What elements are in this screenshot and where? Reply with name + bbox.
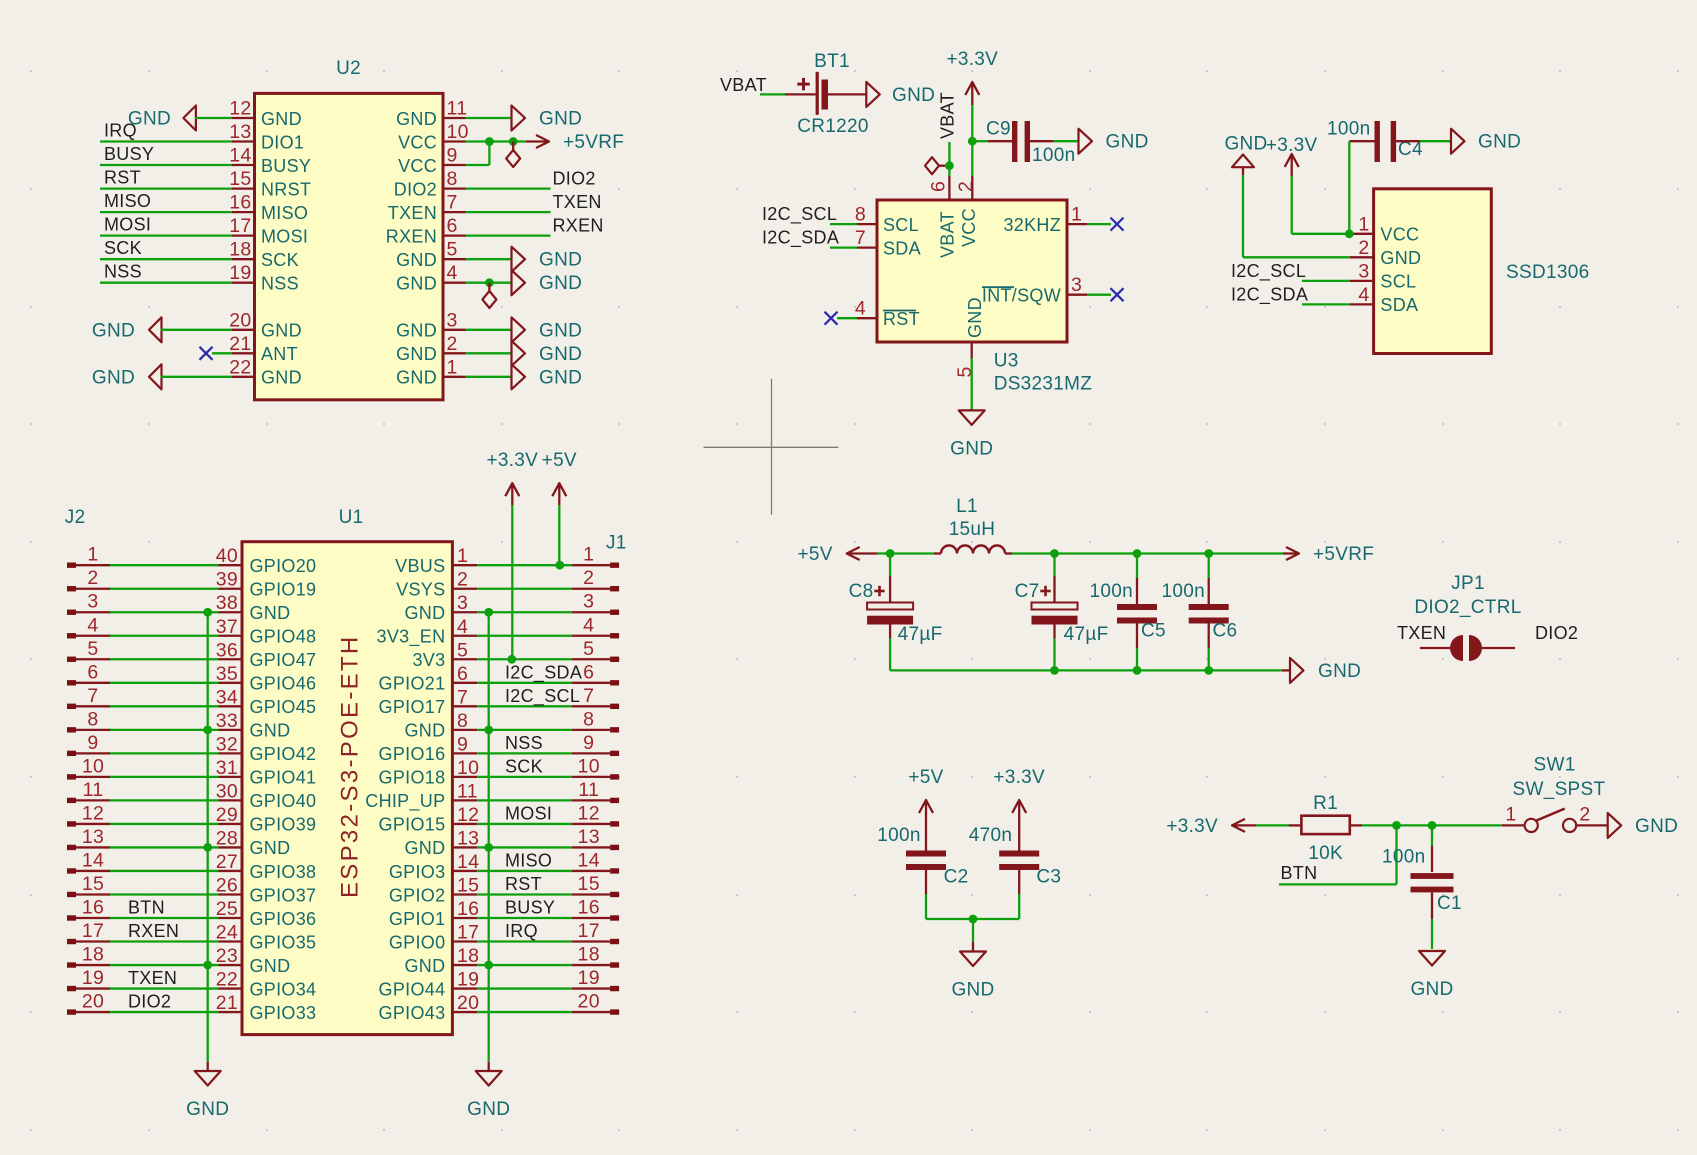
J2 pin 8	[67, 708, 110, 732]
svg-text:BUSY: BUSY	[261, 156, 311, 176]
wire U1 to J1-4	[477, 635, 572, 637]
svg-text:47µF: 47µF	[898, 624, 943, 645]
svg-text:DIO2_CTRL: DIO2_CTRL	[1414, 597, 1521, 618]
pin BT1 minus	[828, 93, 866, 95]
svg-text:10: 10	[82, 755, 104, 777]
J1 pin 4	[572, 614, 619, 638]
svg-text:C9: C9	[986, 119, 1011, 140]
wire U2 to TXEN	[466, 211, 551, 213]
SSD1306 pin 1 VCC	[1350, 213, 1419, 244]
J2 pin 4	[67, 614, 110, 638]
svg-text:GPIO33: GPIO33	[250, 1003, 317, 1023]
svg-text:GND: GND	[965, 297, 985, 338]
U3 pin 4 RST	[855, 298, 920, 329]
J1 pin 12	[572, 802, 619, 826]
wire I2C_SCL to U3	[830, 223, 857, 225]
svg-text:GPIO15: GPIO15	[379, 815, 446, 835]
junction left GND row3	[203, 608, 212, 617]
svg-text:6: 6	[457, 663, 468, 685]
J2 pin 10	[67, 755, 110, 779]
wire +5V to VBUS	[558, 505, 560, 565]
wire U2 pin20 to GND	[161, 329, 233, 331]
power flag PWR_FLAG2	[482, 291, 496, 308]
svg-text:JP1: JP1	[1451, 573, 1485, 594]
wire J2-3 to U1	[110, 611, 219, 613]
svg-text:GND: GND	[396, 344, 437, 364]
svg-text:10: 10	[578, 755, 600, 777]
wire pin4 flag stub	[488, 283, 490, 291]
power +5V at C2	[908, 767, 943, 823]
svg-text:1: 1	[1358, 213, 1369, 235]
svg-text:2: 2	[457, 569, 468, 591]
U2 pin 9 VCC	[398, 145, 465, 176]
svg-text:19: 19	[578, 967, 600, 989]
junction pin4 flag	[485, 278, 494, 287]
svg-text:MISO: MISO	[505, 850, 552, 870]
svg-text:1: 1	[447, 356, 458, 378]
capacitor C2	[906, 823, 946, 919]
J2 pin 20	[67, 991, 110, 1015]
wire U2 pin22 to GND	[161, 376, 233, 378]
svg-text:GND: GND	[467, 1099, 510, 1120]
svg-text:GPIO47: GPIO47	[250, 650, 317, 670]
svg-text:GPIO3: GPIO3	[389, 862, 446, 882]
svg-text:+3.3V: +3.3V	[1166, 816, 1218, 837]
wire U1 to J1-19	[477, 987, 572, 989]
svg-text:GND: GND	[404, 721, 445, 741]
wire U1 to J1-9	[477, 752, 572, 754]
svg-text:6: 6	[447, 215, 458, 237]
capacitor C6	[1189, 554, 1229, 671]
svg-text:2: 2	[583, 567, 594, 589]
junction right GND row3	[484, 608, 493, 617]
svg-text:SW1: SW1	[1534, 755, 1576, 776]
J2 pin 19	[67, 967, 110, 991]
no-connect U3 32KHZ	[1111, 218, 1124, 231]
U1 pin 18 GND	[404, 945, 479, 976]
svg-text:GPIO40: GPIO40	[250, 791, 317, 811]
svg-text:20: 20	[229, 309, 251, 331]
U1 pin 19 GPIO44	[379, 969, 480, 1000]
svg-text:GND: GND	[250, 956, 291, 976]
wire left GND bus	[207, 612, 209, 1062]
op-amp U2 body	[255, 93, 444, 399]
power flag VBAT	[925, 157, 939, 174]
wire INT/SQW stub	[1087, 294, 1111, 296]
svg-text:18: 18	[457, 945, 479, 967]
svg-text:GPIO36: GPIO36	[250, 909, 317, 929]
wire node down	[972, 919, 974, 942]
svg-text:GND: GND	[396, 250, 437, 270]
wire right GND bus	[488, 612, 490, 1062]
svg-text:GPIO17: GPIO17	[379, 697, 446, 717]
wire U1 to J1-5	[477, 658, 572, 660]
inductor L1	[934, 546, 1012, 554]
svg-text:13: 13	[457, 827, 479, 849]
power GND at SW1	[1608, 813, 1678, 838]
J2 pin 14	[67, 849, 110, 873]
svg-text:GPIO46: GPIO46	[250, 674, 317, 694]
svg-text:26: 26	[216, 874, 238, 896]
svg-text:BUSY: BUSY	[104, 144, 154, 164]
svg-text:9: 9	[87, 732, 98, 754]
power GND right of U1	[467, 1071, 510, 1120]
svg-text:DIO1: DIO1	[261, 132, 304, 152]
svg-text:6: 6	[928, 181, 950, 192]
wire J2-6 to U1	[110, 682, 219, 684]
svg-text:GPIO38: GPIO38	[250, 862, 317, 882]
svg-text:GND: GND	[261, 321, 302, 341]
svg-text:4: 4	[1358, 284, 1369, 306]
U1 pin 5 3V3	[412, 639, 477, 670]
junction 3V3	[507, 655, 516, 664]
resistor R1	[1289, 816, 1362, 834]
U1 pin 9 GPIO16	[379, 733, 478, 764]
svg-text:MISO: MISO	[104, 191, 151, 211]
svg-text:470n: 470n	[969, 825, 1012, 846]
wire +3.3V to 3V3	[511, 505, 513, 659]
capacitor C8	[867, 554, 913, 671]
svg-text:INT/SQW: INT/SQW	[982, 286, 1061, 306]
U2 pin 12 GND	[229, 98, 302, 129]
junction C7 top	[1050, 549, 1059, 558]
svg-text:NSS: NSS	[261, 274, 299, 294]
U2 pin 20 GND	[229, 309, 302, 340]
U1 pin 1 VBUS	[395, 545, 477, 576]
svg-text:GND: GND	[1106, 132, 1149, 153]
wire U1 to J1-1	[477, 564, 572, 566]
svg-text:GPIO43: GPIO43	[379, 1003, 446, 1023]
svg-text:8: 8	[457, 710, 468, 732]
J2 pin 1	[67, 544, 110, 568]
wire bottom rail to GND	[1209, 669, 1282, 671]
svg-text:I2C_SCL: I2C_SCL	[1231, 261, 1306, 282]
wire U1 to J1-3	[477, 611, 572, 613]
svg-text:9: 9	[447, 145, 458, 167]
wire to U2 pin9	[466, 164, 490, 166]
wire bottom rail C7-C5	[1055, 669, 1138, 671]
svg-text:19: 19	[229, 262, 251, 284]
junction C1	[1428, 821, 1437, 830]
svg-text:BT1: BT1	[814, 51, 850, 72]
svg-text:9: 9	[457, 733, 468, 755]
svg-text:24: 24	[216, 922, 238, 944]
power +3.3V at SSD1306	[1266, 135, 1318, 176]
svg-text:DIO2: DIO2	[553, 169, 596, 189]
junction left GND row18	[203, 961, 212, 970]
svg-text:25: 25	[216, 898, 238, 920]
svg-text:20: 20	[457, 992, 479, 1014]
wire NSS to U2	[100, 282, 232, 284]
J1 pin 2	[572, 567, 619, 591]
junction VBAT flag	[945, 161, 954, 170]
svg-text:8: 8	[583, 708, 594, 730]
svg-text:VBAT: VBAT	[938, 211, 958, 258]
svg-text:I2C_SCL: I2C_SCL	[762, 204, 837, 225]
wire U1 to J1-12	[477, 823, 572, 825]
U2 pin 18 SCK	[229, 239, 299, 270]
wire J2-12 to U1	[110, 823, 219, 825]
wire +3.3V to pin1	[1292, 233, 1350, 235]
svg-text:+5V: +5V	[797, 544, 832, 565]
power +5V at L1	[797, 544, 877, 565]
wire bottom rail C5-C6	[1137, 669, 1209, 671]
svg-text:C3: C3	[1036, 867, 1061, 888]
svg-text:1: 1	[583, 544, 594, 566]
svg-text:16: 16	[82, 897, 104, 919]
power GND at U2 pin 12	[128, 106, 196, 131]
svg-text:12: 12	[457, 804, 479, 826]
svg-text:29: 29	[216, 804, 238, 826]
svg-text:10K: 10K	[1308, 843, 1343, 864]
svg-text:C8: C8	[849, 581, 874, 602]
wire MISO to U2	[100, 211, 232, 213]
power GND at U2 pin 20	[92, 317, 162, 342]
wire U1 to J1-13	[477, 846, 572, 848]
svg-text:+3.3V: +3.3V	[993, 767, 1045, 788]
svg-text:7: 7	[855, 227, 866, 249]
svg-text:GPIO37: GPIO37	[250, 885, 317, 905]
U2 pin 8 DIO2	[394, 168, 466, 199]
J2 pin 7	[67, 685, 110, 709]
svg-text:15: 15	[82, 873, 104, 895]
wire U2 pin4 to GND	[466, 282, 512, 284]
wire J2-16 to U1	[110, 917, 219, 919]
svg-text:GPIO21: GPIO21	[379, 674, 446, 694]
svg-text:U1: U1	[339, 507, 364, 528]
svg-text:BTN: BTN	[128, 898, 165, 918]
svg-text:GPIO35: GPIO35	[250, 932, 317, 952]
wire U2 pin10 to +5VRF	[466, 140, 527, 142]
J1 pin 14	[572, 849, 619, 873]
wire J2-18 to U1	[110, 964, 219, 966]
U1 pin 25 GPIO36	[216, 898, 317, 929]
wire U2 pin2 to GND	[466, 352, 512, 354]
svg-text:GPIO48: GPIO48	[250, 627, 317, 647]
wire +3.3V to U3 VCC	[971, 105, 973, 176]
svg-text:2: 2	[87, 567, 98, 589]
U1 pin 23 GND	[216, 945, 291, 976]
power +5VRF at L1	[1283, 544, 1374, 565]
svg-text:SSD1306: SSD1306	[1506, 262, 1589, 283]
power +3.3V at U3	[946, 49, 998, 105]
svg-text:I2C_SCL: I2C_SCL	[505, 686, 580, 707]
wire GND stub	[1242, 167, 1244, 175]
svg-text:16: 16	[457, 898, 479, 920]
power +3.3V at U1	[486, 450, 538, 505]
svg-text:6: 6	[583, 661, 594, 683]
junction right GND row18	[484, 961, 493, 970]
U2 pin 21 ANT	[229, 333, 298, 364]
svg-text:100n: 100n	[1032, 145, 1075, 166]
wire J2-8 to U1	[110, 729, 219, 731]
svg-text:GND: GND	[396, 321, 437, 341]
svg-text:15uH: 15uH	[949, 519, 996, 540]
svg-text:21: 21	[229, 333, 251, 355]
svg-text:GPIO39: GPIO39	[250, 815, 317, 835]
junction VCC pins	[485, 137, 494, 146]
svg-text:BUSY: BUSY	[505, 898, 555, 918]
power +3.3V at C3	[993, 767, 1045, 823]
svg-text:10: 10	[447, 121, 469, 143]
svg-text:32KHZ: 32KHZ	[1003, 215, 1061, 235]
svg-text:27: 27	[216, 851, 238, 873]
J1 pin 6	[572, 661, 619, 685]
svg-text:GND: GND	[250, 838, 291, 858]
svg-text:15: 15	[578, 873, 600, 895]
U1 pin 14 GPIO3	[389, 851, 479, 882]
svg-text:GND: GND	[1635, 816, 1678, 837]
U2 pin 17 MOSI	[229, 215, 308, 246]
no-connect U2 ANT	[200, 347, 213, 360]
power GND at C2C3	[951, 952, 994, 1001]
svg-text:1: 1	[87, 544, 98, 566]
svg-text:VBUS: VBUS	[395, 556, 445, 576]
svg-text:6: 6	[87, 661, 98, 683]
U1 pin 28 GND	[216, 827, 291, 858]
U1 pin 37 GPIO48	[216, 616, 317, 647]
svg-text:NSS: NSS	[505, 733, 543, 753]
U1 pin 8 GND	[404, 710, 477, 741]
J1 pin 8	[572, 708, 619, 732]
svg-text:DS3231MZ: DS3231MZ	[994, 374, 1093, 395]
svg-text:4: 4	[87, 614, 98, 636]
svg-text:VCC: VCC	[398, 156, 437, 176]
svg-text:+3.3V: +3.3V	[946, 49, 998, 70]
wire J2-19 to U1	[110, 987, 219, 989]
U1 pin 31 GPIO41	[216, 757, 317, 788]
svg-text:19: 19	[82, 967, 104, 989]
capacitor C9	[1012, 121, 1030, 162]
U1 pin 24 GPIO35	[216, 922, 317, 953]
junction C5 bottom	[1133, 666, 1142, 675]
U1 pin 39 GPIO19	[216, 569, 317, 600]
svg-text:8: 8	[447, 168, 458, 190]
svg-text:C1: C1	[1437, 893, 1462, 914]
svg-text:GND: GND	[892, 85, 935, 106]
J1 pin 18	[572, 944, 619, 968]
power GND at U3	[950, 410, 993, 459]
power GND at U2 pin 22	[92, 364, 162, 389]
J1 pin 1	[572, 544, 619, 568]
svg-text:NSS: NSS	[104, 262, 142, 282]
wire BTN left	[1279, 883, 1397, 885]
svg-text:ANT: ANT	[261, 344, 298, 364]
U1 pin 21 GPIO33	[216, 992, 317, 1023]
svg-text:GND: GND	[539, 109, 582, 130]
svg-text:IRQ: IRQ	[505, 921, 538, 941]
svg-text:3: 3	[447, 309, 458, 331]
svg-text:38: 38	[216, 592, 238, 614]
wire VCC down	[488, 142, 490, 166]
svg-text:GND: GND	[396, 368, 437, 388]
wire J2-4 to U1	[110, 635, 219, 637]
wire VBAT to BT1	[760, 93, 785, 95]
svg-text:R1: R1	[1313, 793, 1338, 814]
junction SSD1306 VCC	[1345, 229, 1354, 238]
junction C2C3 GND	[969, 915, 978, 924]
wire GND down	[1242, 175, 1244, 257]
svg-text:2: 2	[1579, 804, 1590, 826]
svg-text:GPIO19: GPIO19	[250, 580, 317, 600]
svg-text:12: 12	[82, 802, 104, 824]
svg-text:16: 16	[578, 897, 600, 919]
svg-text:11: 11	[578, 779, 599, 801]
wire J2-15 to U1	[110, 893, 219, 895]
wire U1 to J1-17	[477, 940, 572, 942]
svg-text:GND: GND	[404, 838, 445, 858]
U3 pin 3 INT/SQW	[982, 274, 1087, 305]
svg-text:TXEN: TXEN	[1397, 623, 1446, 643]
wire C2 to node	[926, 918, 973, 920]
svg-text:37: 37	[216, 616, 238, 638]
power GND at filter	[1290, 658, 1361, 683]
wire J2-5 to U1	[110, 658, 219, 660]
svg-text:DIO2: DIO2	[394, 179, 437, 199]
svg-text:30: 30	[216, 780, 238, 802]
svg-text:CHIP_UP: CHIP_UP	[365, 791, 445, 812]
capacitor C1	[1411, 825, 1454, 949]
wire J2-13 to U1	[110, 846, 219, 848]
wire 32KHZ stub	[1087, 223, 1111, 225]
U1 pin 12 GPIO15	[379, 804, 480, 835]
wire J2-14 to U1	[110, 870, 219, 872]
J1 pin 9	[572, 732, 619, 756]
wire J2-17 to U1	[110, 940, 219, 942]
svg-text:SCL: SCL	[1380, 272, 1416, 292]
J2 pin 18	[67, 944, 110, 968]
wire U1 to J1-6	[477, 682, 572, 684]
wire U3 GND	[971, 358, 973, 410]
U1 pin 30 GPIO40	[216, 780, 317, 811]
U3 pin 7 SDA	[855, 227, 921, 258]
wire +5V to C8	[877, 552, 890, 554]
wire C4 down	[1348, 141, 1350, 234]
U1 pin 22 GPIO34	[216, 969, 317, 1000]
svg-text:RST: RST	[883, 309, 920, 329]
U1 pin 38 GND	[216, 592, 291, 623]
wire U1 to J1-11	[477, 799, 572, 801]
J1 pin 10	[572, 755, 619, 779]
J1 pin 13	[572, 826, 619, 850]
svg-text:+5V: +5V	[542, 450, 577, 471]
svg-text:8: 8	[855, 204, 866, 226]
svg-text:J1: J1	[606, 533, 627, 554]
svg-text:22: 22	[229, 356, 251, 378]
power GND at BT1	[866, 82, 935, 107]
svg-text:MOSI: MOSI	[261, 226, 308, 246]
U1 pin 29 GPIO39	[216, 804, 317, 835]
svg-text:+3.3V: +3.3V	[1266, 135, 1318, 156]
U2 pin 4 GND	[396, 262, 465, 293]
J2 pin 16	[67, 897, 110, 921]
svg-text:3V3_EN: 3V3_EN	[377, 627, 446, 648]
U2 pin 13 DIO1	[229, 121, 304, 152]
svg-text:10: 10	[457, 757, 479, 779]
svg-text:GND: GND	[1380, 248, 1421, 268]
svg-text:36: 36	[216, 639, 238, 661]
U2 pin 14 BUSY	[229, 145, 311, 176]
U1 pin 11 CHIP_UP	[365, 780, 478, 812]
svg-text:47µF: 47µF	[1064, 624, 1109, 645]
svg-text:31: 31	[216, 757, 238, 779]
power +5V at U1	[542, 450, 577, 505]
svg-text:15: 15	[229, 168, 251, 190]
svg-text:VBAT: VBAT	[938, 92, 958, 139]
J2 pin 15	[67, 873, 110, 897]
wire J2-2 to U1	[110, 588, 219, 590]
J2 pin 6	[67, 661, 110, 685]
